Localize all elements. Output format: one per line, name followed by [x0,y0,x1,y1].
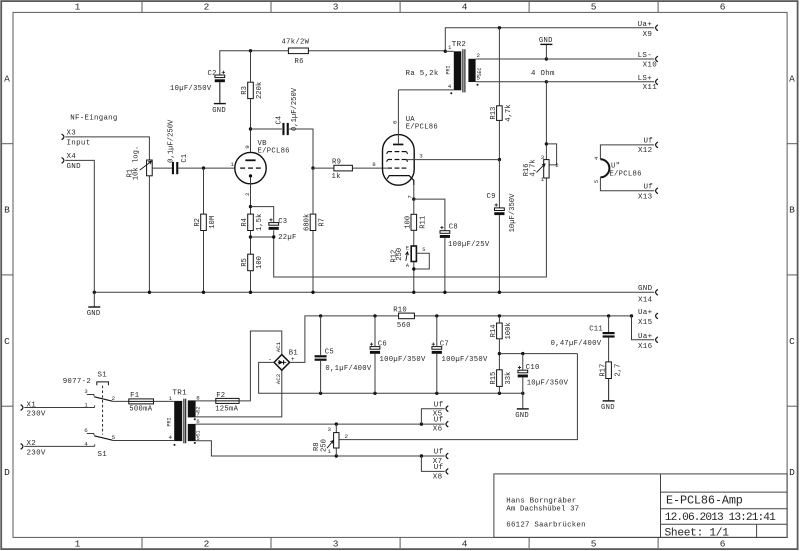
svg-text:Hans Borngräber: Hans Borngräber [506,498,576,506]
wire C6 top [374,316,376,347]
svg-text:4: 4 [462,539,468,550]
svg-text:A: A [4,74,10,85]
wire R8 top lead [335,424,337,433]
wire X4 to ground bus [65,160,94,292]
svg-text:Ra 5,2k: Ra 5,2k [406,70,439,78]
svg-text:C7: C7 [440,341,449,349]
resistor R10 [399,313,415,319]
svg-text:C3: C3 [278,218,287,226]
potentiometer R1 [147,160,153,176]
border column ticks [141,2,143,12]
junction ground bus R7 [311,291,314,294]
tube VB grid dashes [240,167,245,169]
svg-text:1: 1 [75,2,81,13]
capacitor C4 [282,123,284,135]
svg-text:R17: R17 [599,364,607,377]
svg-text:GND: GND [515,412,529,420]
svg-text:GND: GND [212,107,226,115]
transformer TR2 pin5 stub [476,81,547,83]
wire C5 top [320,316,322,355]
svg-text:10k log.: 10k log. [132,146,140,181]
junction LS+ R16 [545,80,548,83]
wire TR1 pin8 to F2 [196,400,216,402]
svg-text:S: S [422,246,426,253]
wire C2 to R6 line [220,51,289,75]
junction C4 tap [249,127,252,130]
wire X2 to switch [24,445,94,447]
svg-text:2: 2 [477,52,481,59]
junction ground bus C9 [498,291,501,294]
wire X15 to X16 bracket [632,316,655,340]
svg-text:C1: C1 [181,154,189,163]
capacitor C8 [440,231,450,234]
junction ground bus R1 [148,291,151,294]
svg-text:LS-: LS- [638,52,652,60]
capacitor C1 [172,162,174,174]
resistor R17 [606,362,612,379]
svg-text:X1: X1 [27,401,37,409]
resistor R11 [411,214,417,230]
svg-text:10µF/350V: 10µF/350V [527,379,569,387]
svg-text:2: 2 [244,192,251,196]
svg-text:Am Dachshübel 37: Am Dachshübel 37 [506,505,579,513]
switch S1 pole 2 [87,433,94,435]
svg-text:1k: 1k [332,173,341,181]
svg-text:F1: F1 [130,392,139,400]
wire rail to R13 [498,28,500,106]
transformer TR2 polarity dots [450,92,452,94]
wire X12 to heater [600,145,654,159]
tube heater U" arc [600,159,609,177]
resistor R15 [497,370,503,387]
capacitor C9 [495,208,505,211]
wire C5 bottom [320,361,322,394]
wire TR1 S1 bottom to heater line B [196,441,445,456]
wire Ua+ top rail [445,28,654,52]
svg-text:B: B [4,205,10,216]
svg-text:Ua+: Ua+ [638,333,653,341]
resistor R13 [497,106,503,121]
junction B+ X15 node [630,314,633,317]
svg-text:4,7k: 4,7k [529,159,537,176]
junction C3 bottom [272,235,275,238]
wire C10 bottom [522,377,524,393]
svg-text:E/PCL86: E/PCL86 [609,171,641,179]
svg-text:R14: R14 [490,324,498,337]
svg-text:10M: 10M [209,216,217,229]
wire heater line A [196,423,445,425]
tube VB cathode wire [250,178,252,184]
svg-text:4: 4 [84,440,88,447]
junction B+ C6 top [373,314,376,317]
title block divider [660,474,662,538]
connector X12 [656,142,658,148]
wire C9 to ground bus [498,215,500,292]
connector X13 [656,188,658,194]
svg-text:100k: 100k [505,322,513,339]
svg-text:3: 3 [541,154,545,161]
wire R8 bottom lead [335,448,337,456]
wire B+ line R10 to X15 [414,315,631,317]
svg-text:E: E [406,244,410,251]
svg-text:X9: X9 [643,31,653,39]
wire screen node to C9 [498,160,500,208]
svg-text:AC2: AC2 [275,373,282,384]
junction R7 R9 [311,166,314,169]
switch S1 pole 1 [87,394,94,396]
wire cathode to C3 top [251,207,274,223]
capacitor C7 [432,347,442,350]
svg-text:X11: X11 [643,84,658,92]
svg-text:R10: R10 [393,306,407,314]
wire main ground bus [94,291,654,293]
wire node to R9 [313,167,334,169]
svg-text:C8: C8 [449,223,458,231]
junction 0V C5 bottom [319,392,322,395]
transformer TR1 secondary S1 winding [188,424,196,441]
wire C2 to ground [219,82,221,103]
wire C3 bottom link [251,230,274,237]
svg-text:4: 4 [593,156,600,160]
wire switch pole1 to F1 [112,400,128,402]
junction ground bus X4/GND [93,291,96,294]
svg-text:220k: 220k [256,82,264,99]
switch S1 actuator bracket [97,382,109,385]
svg-text:1: 1 [169,395,173,402]
svg-text:R13: R13 [490,107,498,120]
resistor R7 [310,214,316,230]
svg-text:Uf: Uf [434,464,444,472]
junction cathode C3 tap [249,205,252,208]
svg-text:X13: X13 [638,193,653,201]
svg-text:12.06.2013 13:21:41: 12.06.2013 13:21:41 [665,512,776,524]
resistor R4 [248,214,254,230]
junction TR2 pin1 [444,50,447,53]
svg-text:B: B [789,205,795,216]
svg-text:3: 3 [84,388,88,395]
tube UA anode [397,135,399,144]
ground below C10 [522,393,524,409]
svg-text:GND: GND [87,310,101,318]
transformer TR2 core [462,49,464,92]
svg-text:C2: C2 [208,70,217,78]
svg-text:4: 4 [448,83,452,90]
svg-text:2: 2 [204,539,210,550]
svg-text:TR1: TR1 [173,390,188,398]
wire R14 top [498,316,500,323]
svg-text:1: 1 [541,176,545,183]
junction R8 top [335,422,338,425]
svg-text:1: 1 [84,401,88,408]
svg-text:X15: X15 [638,319,653,327]
svg-text:C: C [4,336,10,347]
junction R8 bottom [335,454,338,457]
svg-text:33k: 33k [505,372,513,385]
svg-text:6: 6 [720,2,726,13]
junction 0V C10 bottom [521,392,524,395]
junction LS- gnd [545,57,548,60]
junction R4 bottom [249,235,252,238]
svg-text:Uf: Uf [434,401,444,409]
svg-text:X14: X14 [638,297,653,305]
svg-text:X6: X6 [433,426,443,434]
junction ground bus R5 [249,291,252,294]
svg-text:1: 1 [230,161,234,168]
svg-text:U": U" [611,163,620,171]
transformer TR2 secondary winding [468,59,475,82]
svg-text:230V: 230V [27,411,46,419]
wire switch pole2 to TR1 [112,440,174,442]
svg-text:R9: R9 [332,159,341,167]
connector X5 [446,406,448,412]
junction B+ C5 top [319,314,322,317]
resistor R14 [497,323,503,339]
wire R8 wiper to divider node [339,354,577,440]
svg-text:Ua+: Ua+ [638,21,653,29]
wire R15 bottom [498,386,500,393]
transformer TR2 pin2 stub [476,58,547,60]
junction R16 wiper loop [545,142,548,145]
connector X2 [21,444,23,450]
svg-text:4: 4 [462,2,468,13]
wire R5 bottom [250,271,252,293]
transformer TR1 secondary S2 winding [188,400,196,417]
svg-text:6: 6 [84,427,88,434]
svg-text:C6: C6 [378,341,387,349]
svg-text:0,1µF/250V: 0,1µF/250V [168,119,176,163]
wire bridge minus to 0V line [259,362,321,393]
junction 0V C7 bottom [435,392,438,395]
connector X15 [656,313,658,319]
svg-text:Uf: Uf [644,183,654,191]
transformer TR2 primary winding [454,51,462,90]
svg-text:4: 4 [169,434,173,441]
connector X14 [656,289,658,295]
title block outline [494,474,787,538]
capacitor C3 [269,223,279,226]
junction screen node [498,158,501,161]
capacitor C11 [603,332,615,334]
fuse F2 [216,398,239,403]
junction R3 top [249,49,252,52]
svg-text:230V: 230V [27,450,46,458]
wire R1 to ground bus [148,176,150,292]
svg-text:C5: C5 [325,349,334,357]
wire R7 bottom [312,231,314,293]
svg-text:500mA: 500mA [129,405,152,413]
junction R2 grid [202,166,205,169]
svg-text:R3: R3 [241,86,249,95]
wire R3 bottom to anode node [250,99,252,153]
svg-text:10µF/350V: 10µF/350V [509,193,517,233]
wire R14 to divider node [498,339,500,370]
tube VB envelope [235,152,266,183]
svg-text:D: D [789,467,795,478]
svg-text:R5: R5 [241,258,249,267]
svg-text:S1: S1 [98,451,108,459]
junction ground bus R12 [412,291,415,294]
rectifier B1 internal diode [278,361,286,363]
wire C1 to VB grid [178,167,235,169]
rectifier B1 body [274,355,290,371]
svg-text:100: 100 [405,216,413,229]
wire R13 to screen node [498,120,500,159]
wire C8 to ground bus [444,238,446,292]
ground below C2 [219,82,221,103]
connector X10 [656,56,658,62]
wire R3 top [250,51,252,82]
wire C11 to R17 [608,338,610,362]
resistor R2 [201,214,207,230]
transformer TR1 core [183,399,185,444]
svg-text:X3: X3 [67,129,77,137]
svg-text:S1: S1 [196,430,202,436]
wire TR1 pin7 to bridge AC2 [196,370,282,417]
wire heater to X13 [600,177,654,191]
junction R13 top rail [498,26,501,29]
title block row lines [661,491,788,493]
svg-text:0,1µF/250V: 0,1µF/250V [291,87,299,131]
svg-text:4 Ohm: 4 Ohm [531,70,555,78]
svg-text:6: 6 [720,539,726,550]
svg-text:Input: Input [67,140,91,148]
svg-text:X2: X2 [27,440,37,448]
potentiometer R16 [544,160,549,178]
svg-text:X10: X10 [643,62,658,70]
svg-text:LS+: LS+ [638,75,653,83]
border row ticks [2,143,13,145]
junction divider node [498,352,501,355]
wire X8 bracket [421,456,444,471]
svg-text:9: 9 [244,145,251,149]
wire R12 wiper loop [414,253,430,269]
svg-text:10µF/350V: 10µF/350V [170,85,212,93]
svg-text:A: A [789,74,795,85]
ground below R17 [608,379,610,401]
wire C4 to R7 node [289,129,313,168]
wire B+ line C5 to R10 [321,315,399,317]
transformer TR1 polarity dots [174,444,176,446]
wire UA cathode down [413,185,415,199]
capacitor C5 [315,355,327,357]
resistor R5 [248,254,254,271]
wire C11 top [608,316,610,332]
svg-text:R15: R15 [490,372,498,385]
tube UA grid rows [388,151,392,153]
svg-text:2: 2 [204,2,210,13]
wire X5 bracket [421,409,444,424]
svg-text:6: 6 [392,120,399,124]
svg-text:680k: 680k [304,214,312,231]
svg-text:TR2: TR2 [452,41,466,49]
svg-text:2: 2 [345,433,349,440]
svg-text:F2: F2 [216,392,225,400]
trimmer R12 [411,246,416,262]
svg-text:R7: R7 [319,218,327,227]
wire LS+ down to R16 [545,82,547,160]
svg-text:Uf: Uf [434,416,444,424]
junction R12 wiper join [412,267,415,270]
svg-text:R4: R4 [241,218,249,227]
svg-text:1: 1 [75,539,81,550]
svg-text:125mA: 125mA [215,405,238,413]
tube VB anode [245,159,255,161]
wire bridge plus to B+ line [290,316,321,363]
svg-text:1,5k: 1,5k [256,214,264,231]
svg-text:3: 3 [419,152,423,159]
tube UA envelope [383,135,415,186]
wire LS- to X10 [546,58,654,60]
svg-text:2: 2 [555,162,559,169]
svg-text:+: + [291,356,295,363]
transformer TR1 primary winding [174,401,182,441]
wire R2 bottom [203,231,205,293]
wire C10 top [522,354,524,371]
svg-text:3: 3 [333,2,339,13]
junction X7 bracket [420,454,423,457]
wire R16 wiper loop [546,144,556,165]
svg-text:0,1µF/400V: 0,1µF/400V [325,365,372,373]
svg-text:560: 560 [397,322,411,330]
svg-text:R11: R11 [420,216,428,229]
junction C10 top [521,352,524,355]
svg-text:C4: C4 [275,116,283,125]
capacitor C2 [215,75,225,78]
svg-text:8: 8 [372,161,376,168]
svg-text:2: 2 [112,395,116,402]
connector X3 [62,134,64,140]
svg-text:X16: X16 [638,343,653,351]
wire anode node to C4 [251,128,282,130]
resistor R9 [334,165,353,171]
svg-text:D: D [4,467,10,478]
svg-text:100: 100 [256,256,264,269]
connector X6 [446,421,448,427]
junction B+ C7 top [435,314,438,317]
junction X5 bracket [420,422,423,425]
svg-text:5: 5 [593,179,600,183]
wire divider node to C10 [499,353,577,355]
wire X1 to switch [24,407,94,409]
wire cathode to R11 [413,199,415,214]
svg-text:GND: GND [601,404,615,412]
svg-text:E/PCL86: E/PCL86 [258,148,290,156]
svg-text:3: 3 [333,539,339,550]
svg-text:250: 250 [396,248,404,261]
svg-text:1: 1 [448,44,452,51]
fuse F1 [129,399,154,404]
switch S1 mechanical link [102,386,104,435]
svg-text:GND: GND [638,285,653,293]
svg-text:5: 5 [112,434,116,441]
svg-text:PRI: PRI [445,65,451,74]
ground symbol main bus [93,292,95,307]
junction cathode C8 tap [412,197,415,200]
svg-text:2,7: 2,7 [614,364,622,377]
wire UA screen to R13 node [406,159,499,161]
connector X1 [21,405,23,411]
svg-text:100µF/350V: 100µF/350V [380,356,427,364]
svg-text:C11: C11 [589,325,603,333]
svg-text:A: A [406,262,410,269]
svg-text:4,7k: 4,7k [505,104,513,121]
wire X3 to R1 top [65,137,149,160]
connector X16 [656,337,658,343]
svg-text:47k/2W: 47k/2W [282,39,310,47]
connector X9 [656,25,658,31]
svg-text:GND: GND [539,37,553,45]
capacitor C6 [370,347,380,350]
